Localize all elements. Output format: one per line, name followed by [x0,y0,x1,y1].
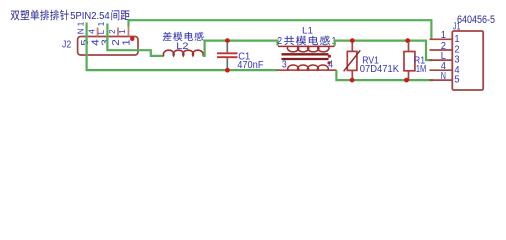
svg-text:2: 2 [111,39,122,46]
wire: net 1 top rail from J2 pin 1 to port 1 [129,20,432,39]
L1 phase dot bottom [327,61,330,64]
resistor R1 [404,42,415,80]
svg-text:N: N [441,71,446,82]
svg-text:2: 2 [108,29,117,34]
svg-text:L2: L2 [176,41,188,52]
L2 value label 差模电感 [163,32,204,41]
port L pin line [430,59,453,61]
wire: net N from L1 pin 4 to port N [336,70,433,80]
svg-text:4: 4 [88,29,97,34]
svg-text:470nF: 470nF [237,60,263,71]
svg-text:1: 1 [118,29,127,34]
svg-text:1M: 1M [416,64,426,75]
svg-text:07D471K: 07D471K [360,64,400,75]
svg-text:640456-5: 640456-5 [457,14,495,26]
J2 pin 1 stub [128,26,130,37]
L1 core bars [282,54,329,59]
svg-text:1: 1 [454,34,459,45]
common-mode choke L1 top winding (pins 2-1) [278,46,335,51]
varistor RV1 [344,42,361,80]
junction dot inside J2 [130,37,134,41]
connector J2 body [78,37,138,56]
J2 pin 2 stub [117,28,119,37]
L1 value label 共模电感 [284,36,330,46]
svg-text:5: 5 [454,75,459,86]
port 2 pin line [430,49,453,51]
wire: net L mid rail from L1 pin 1 to port L [335,41,432,61]
junction dot C1 bottom [225,68,230,73]
svg-text:4: 4 [328,60,333,71]
svg-text:1: 1 [441,30,447,41]
connector J1 body [452,31,483,90]
J2 pin 4 stub [97,28,99,37]
svg-text:3: 3 [101,39,112,46]
L1 bottom winding (pins 3-4) [277,65,337,70]
note text: 双塑单排排针5PIN2.54间距 [11,10,130,23]
port 1 pin line [430,38,453,40]
svg-text:2: 2 [277,36,282,47]
wire: net L1 from J2 pin 3 to inductor L2 [107,24,163,56]
junction dot RV1 top [350,38,355,43]
junction dot R1 top [405,38,410,43]
junction dot C1 top [225,38,230,43]
svg-text:L1: L1 [302,25,313,36]
port N pin line [430,79,453,81]
port 4 pin line [430,69,453,71]
svg-text:5PIN2.54: 5PIN2.54 [70,11,110,22]
wire: net N1 from J2 pin 5 down to bottom rail [87,23,278,71]
L1 phase dot top [328,55,331,58]
inductor L2 coil [163,50,203,56]
svg-text:J2: J2 [62,38,71,50]
capacitor C1 [217,42,238,69]
junction dot R1 bottom [404,78,409,83]
wire: net L1 from L2 up to mid rail toward choke pin 2 [203,41,278,56]
junction dot RV1 bottom [350,78,355,83]
svg-text:3: 3 [282,60,287,71]
